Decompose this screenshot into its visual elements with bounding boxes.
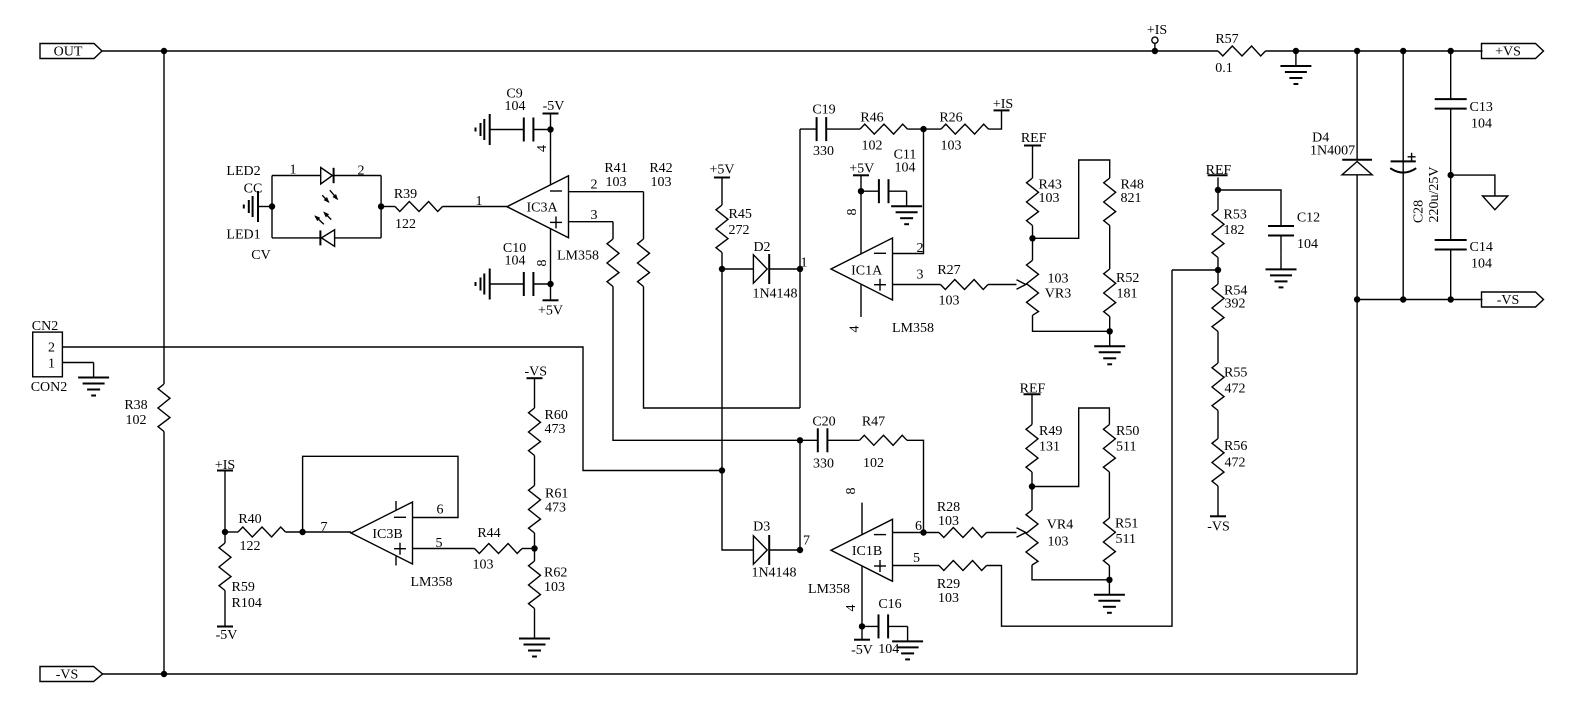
connector CN2	[33, 332, 63, 377]
svg-text:-VS: -VS	[1207, 519, 1230, 534]
svg-text:LED2: LED2	[226, 164, 260, 179]
svg-text:R39: R39	[394, 187, 417, 202]
svg-text:3: 3	[591, 208, 598, 223]
capacitor C12	[1218, 190, 1281, 226]
diode D4 1N4007	[1356, 51, 1358, 160]
svg-text:R57: R57	[1215, 32, 1238, 47]
junction	[1029, 235, 1035, 241]
pin 8 stub	[861, 503, 863, 535]
svg-text:1: 1	[476, 194, 483, 209]
svg-text:VR4: VR4	[1047, 518, 1073, 533]
svg-text:4: 4	[848, 326, 863, 333]
svg-text:472: 472	[1225, 456, 1246, 471]
svg-text:4: 4	[535, 145, 550, 152]
svg-text:R45: R45	[729, 207, 752, 222]
capacitor C16	[862, 625, 879, 627]
potentiometer VR3	[1027, 260, 1039, 315]
svg-text:LED1: LED1	[226, 227, 260, 242]
svg-text:OUT: OUT	[54, 45, 83, 60]
junction	[1448, 296, 1454, 302]
svg-text:2: 2	[917, 241, 924, 256]
svg-text:+5V: +5V	[849, 161, 874, 176]
svg-text:R53: R53	[1224, 207, 1247, 222]
svg-text:8: 8	[845, 209, 860, 216]
+IS tap circle	[1152, 37, 1158, 43]
svg-text:R61: R61	[545, 487, 568, 502]
pin 2 wire	[569, 191, 644, 193]
svg-text:104: 104	[505, 99, 526, 114]
svg-text:R104: R104	[232, 596, 262, 611]
svg-text:-5V: -5V	[543, 99, 565, 114]
OUT tag	[40, 44, 102, 59]
svg-text:-VS: -VS	[1497, 293, 1520, 308]
emission arrows	[322, 195, 327, 201]
svg-text:IC1B: IC1B	[852, 544, 882, 559]
svg-text:3: 3	[917, 268, 924, 283]
svg-text:R44: R44	[477, 526, 500, 541]
svg-text:C28: C28	[1412, 200, 1427, 223]
svg-text:+VS: +VS	[1495, 45, 1521, 60]
svg-text:6: 6	[915, 519, 922, 534]
svg-text:103: 103	[473, 558, 494, 573]
junction	[719, 467, 725, 473]
svg-text:131: 131	[1039, 440, 1060, 455]
svg-text:511: 511	[1116, 440, 1136, 455]
svg-text:R51: R51	[1115, 517, 1138, 532]
svg-text:C16: C16	[878, 597, 901, 612]
resistor R57	[1218, 46, 1266, 56]
svg-text:104: 104	[1471, 257, 1492, 272]
svg-text:1N4148: 1N4148	[751, 566, 796, 581]
resistor R39	[381, 206, 395, 208]
svg-text:103: 103	[1039, 191, 1060, 206]
svg-text:REF: REF	[1021, 131, 1047, 146]
svg-text:330: 330	[813, 144, 834, 159]
resistor R50	[1103, 425, 1115, 473]
resistor R43	[1027, 178, 1039, 226]
svg-text:R56: R56	[1224, 439, 1247, 454]
+VS tag	[1482, 44, 1544, 59]
junction	[1448, 172, 1454, 178]
junction	[1152, 48, 1158, 54]
resistor R40	[225, 531, 238, 533]
resistor R26	[941, 124, 989, 134]
junction	[547, 126, 553, 132]
resistor R47	[860, 435, 908, 445]
svg-text:102: 102	[862, 139, 883, 154]
svg-text:1N4148: 1N4148	[752, 287, 797, 302]
svg-text:C19: C19	[812, 103, 835, 118]
resistor R53	[1212, 210, 1224, 258]
wire to R50 top	[1032, 408, 1109, 487]
svg-text:R26: R26	[939, 111, 962, 126]
svg-text:+5V: +5V	[538, 303, 563, 318]
svg-text:-5V: -5V	[216, 628, 238, 643]
svg-text:102: 102	[126, 413, 147, 428]
VR3 wiper arrow	[1017, 280, 1026, 289]
svg-text:R55: R55	[1224, 366, 1247, 381]
feedback loop	[303, 456, 458, 532]
svg-text:103: 103	[1048, 272, 1069, 287]
svg-text:R41: R41	[604, 161, 627, 176]
pin 5 wire	[413, 548, 475, 550]
svg-text:+5V: +5V	[709, 163, 734, 178]
junction	[920, 126, 926, 132]
svg-text:104: 104	[878, 642, 899, 657]
junction	[1106, 577, 1112, 583]
svg-text:C14: C14	[1470, 240, 1493, 255]
svg-text:R40: R40	[238, 512, 261, 527]
svg-text:7: 7	[803, 534, 810, 549]
potentiometer VR4	[1026, 510, 1038, 565]
pin 2 wire	[62, 347, 721, 471]
pin 1 wire to ground	[62, 362, 93, 364]
svg-text:6: 6	[437, 503, 444, 518]
pin 4 to -5V with C9	[550, 114, 552, 185]
svg-text:122: 122	[395, 217, 416, 232]
junction	[1354, 48, 1360, 54]
junction	[1400, 48, 1406, 54]
svg-text:103: 103	[941, 139, 962, 154]
svg-text:103: 103	[606, 175, 627, 190]
svg-text:C20: C20	[812, 415, 835, 430]
svg-text:1: 1	[801, 256, 808, 271]
svg-text:R42: R42	[649, 161, 672, 176]
svg-text:392: 392	[1225, 297, 1246, 312]
svg-text:511: 511	[1116, 532, 1136, 547]
VR4 wiper arrow	[1017, 528, 1026, 537]
svg-text:C12: C12	[1297, 211, 1320, 226]
pin 2 wire to R46/R26 junction	[893, 129, 924, 253]
svg-text:103: 103	[1048, 535, 1069, 550]
junction	[1029, 483, 1035, 489]
capacitor C13	[1450, 51, 1452, 99]
junction	[1448, 48, 1454, 54]
resistor R61	[529, 486, 541, 534]
svg-text:5: 5	[913, 551, 920, 566]
svg-text:IC3A: IC3A	[526, 201, 558, 216]
svg-text:4: 4	[844, 605, 859, 612]
resistor R44	[475, 544, 523, 554]
svg-text:+IS: +IS	[1147, 23, 1167, 38]
pin 4 stub	[860, 284, 862, 317]
resistor R28	[939, 528, 987, 538]
junction	[920, 529, 926, 535]
svg-text:CV: CV	[251, 248, 270, 263]
junction	[161, 671, 167, 677]
svg-text:104: 104	[1471, 117, 1492, 132]
svg-text:CON2: CON2	[31, 380, 68, 395]
bottom -VS rail	[103, 673, 1358, 675]
resistor R55	[1212, 363, 1224, 411]
svg-text:181: 181	[1117, 287, 1138, 302]
svg-text:R50: R50	[1116, 424, 1139, 439]
junction	[1107, 328, 1113, 334]
svg-text:103: 103	[544, 580, 565, 595]
svg-text:VR3: VR3	[1045, 287, 1071, 302]
pin 5 wire	[893, 565, 940, 567]
svg-text:R46: R46	[860, 111, 883, 126]
svg-text:8: 8	[535, 260, 550, 267]
wire R29 to REF node	[987, 270, 1173, 626]
svg-text:D3: D3	[753, 520, 770, 535]
junction	[1215, 267, 1221, 273]
svg-text:R38: R38	[124, 398, 147, 413]
left vertical column from OUT	[163, 51, 165, 384]
svg-text:-VS: -VS	[56, 668, 79, 683]
svg-text:R28: R28	[937, 500, 960, 515]
svg-text:1: 1	[48, 357, 55, 372]
junction	[719, 266, 725, 272]
svg-text:8: 8	[844, 488, 859, 495]
-VS tag right	[1482, 292, 1544, 307]
resistor R49	[1026, 425, 1038, 473]
svg-text:0.1: 0.1	[1215, 61, 1233, 76]
resistor R62	[529, 561, 541, 609]
-VS bottom tag	[40, 667, 103, 682]
resistor R45	[716, 205, 728, 253]
wire to R48 top	[1033, 160, 1110, 238]
junction	[222, 529, 228, 535]
svg-text:R47: R47	[862, 415, 885, 430]
CC ground	[258, 206, 272, 208]
-VS rail right	[1357, 299, 1482, 301]
svg-text:D2: D2	[753, 240, 770, 255]
resistor R60	[529, 408, 541, 456]
svg-text:-5V: -5V	[851, 643, 873, 658]
resistor R59	[224, 532, 226, 543]
svg-text:102: 102	[863, 456, 884, 471]
svg-text:CC: CC	[244, 182, 263, 197]
svg-text:473: 473	[545, 501, 566, 516]
node column C19-left	[799, 129, 801, 408]
op-amp IC3A	[507, 176, 569, 238]
resistor R54	[1212, 284, 1224, 332]
resistor R46	[860, 124, 908, 134]
capacitor C19	[800, 128, 817, 130]
resistor R27	[941, 280, 989, 290]
resistor R41	[612, 222, 614, 239]
svg-text:2: 2	[358, 164, 365, 179]
svg-text:821: 821	[1121, 191, 1142, 206]
resistor R56	[1212, 439, 1224, 487]
svg-text:104: 104	[505, 254, 526, 269]
node column C20-left	[799, 440, 801, 550]
junction	[531, 545, 537, 551]
svg-text:R27: R27	[937, 263, 960, 278]
svg-text:CN2: CN2	[32, 319, 58, 334]
svg-text:473: 473	[545, 422, 566, 437]
svg-text:472: 472	[1225, 382, 1246, 397]
svg-text:2: 2	[48, 341, 55, 356]
junction	[797, 547, 803, 553]
op-amp IC1A	[831, 238, 893, 300]
svg-text:330: 330	[813, 457, 834, 472]
op-amp IC1B	[831, 519, 893, 581]
svg-text:104: 104	[895, 161, 916, 176]
svg-text:R52: R52	[1116, 271, 1139, 286]
junction	[1354, 296, 1360, 302]
svg-text:103: 103	[938, 514, 959, 529]
svg-text:R49: R49	[1039, 424, 1062, 439]
junction	[1215, 187, 1221, 193]
svg-text:104: 104	[1297, 237, 1318, 252]
svg-text:R60: R60	[545, 408, 568, 423]
pin 4 to -5V	[861, 566, 863, 640]
junction	[161, 48, 167, 54]
svg-text:IC1A: IC1A	[851, 263, 883, 278]
pin stubs	[395, 501, 397, 510]
pin 3 wire	[893, 284, 941, 286]
resistor R52	[1104, 269, 1116, 317]
svg-text:LM358: LM358	[892, 321, 934, 336]
capacitor C14	[1435, 239, 1467, 241]
svg-text:R62: R62	[544, 566, 567, 581]
REF wire to IC1B pin5 path	[1172, 269, 1218, 271]
LED pair box	[271, 176, 273, 238]
svg-text:103: 103	[938, 591, 959, 606]
pin 8 to +5V with C10	[550, 229, 552, 300]
svg-text:103: 103	[651, 175, 672, 190]
resistor R38	[158, 384, 170, 432]
svg-text:1: 1	[290, 163, 297, 178]
capacitor C11	[861, 190, 879, 192]
junction	[797, 266, 803, 272]
svg-text:LM358: LM358	[557, 248, 599, 263]
junction	[547, 281, 553, 287]
resistor R42	[643, 192, 645, 239]
LED2 top	[321, 168, 333, 185]
junction	[859, 623, 865, 629]
svg-text:LM358: LM358	[411, 575, 453, 590]
capacitor C20	[800, 439, 818, 441]
svg-text:182: 182	[1224, 223, 1245, 238]
svg-text:103: 103	[939, 294, 960, 309]
capacitor C9	[490, 129, 524, 131]
capacitor C10	[490, 283, 524, 285]
svg-text:LM358: LM358	[808, 582, 850, 597]
resistor R51	[1103, 518, 1115, 566]
svg-text:272: 272	[729, 223, 750, 238]
junction	[858, 188, 864, 194]
svg-text:122: 122	[240, 539, 261, 554]
pin 6 wire	[893, 532, 940, 534]
svg-text:2: 2	[591, 178, 598, 193]
node OUT top rail	[102, 50, 1218, 52]
capacitor C28 220u/25V	[1402, 51, 1404, 300]
junction	[1293, 48, 1299, 54]
svg-text:1N4007: 1N4007	[1310, 144, 1355, 159]
op-amp IC3B	[351, 502, 413, 564]
junction	[299, 529, 305, 535]
junction	[1400, 296, 1406, 302]
resistor R48	[1104, 178, 1116, 226]
svg-text:C13: C13	[1470, 100, 1493, 115]
junction	[378, 203, 384, 209]
svg-text:R29: R29	[937, 577, 960, 592]
junction	[797, 437, 803, 443]
LED1 bottom	[321, 230, 334, 247]
svg-text:+IS: +IS	[993, 97, 1013, 112]
+IS bar right	[989, 110, 1002, 129]
svg-text:220u/25V: 220u/25V	[1427, 167, 1442, 223]
svg-text:7: 7	[321, 520, 328, 535]
resistor R29	[939, 561, 987, 571]
diode D2 1N4148	[722, 268, 753, 270]
junction	[269, 203, 275, 209]
svg-text:R59: R59	[232, 580, 255, 595]
svg-text:IC3B: IC3B	[372, 527, 402, 542]
diode D3 1N4148	[753, 535, 769, 565]
-VS power bar under R56	[1210, 515, 1226, 517]
pin 3 wire	[569, 221, 614, 223]
